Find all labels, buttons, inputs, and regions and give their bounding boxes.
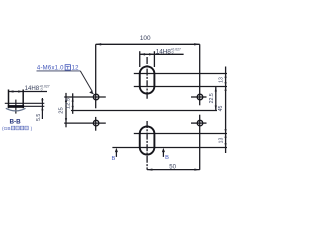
svg-text:25: 25 — [59, 107, 65, 113]
svg-text:13: 13 — [218, 138, 224, 144]
svg-text:B: B — [165, 155, 169, 161]
svg-text:0: 0 — [172, 50, 174, 54]
svg-text:100: 100 — [140, 35, 151, 42]
svg-text:45: 45 — [218, 106, 224, 112]
svg-text:5.5: 5.5 — [36, 114, 42, 121]
svg-text:(GB: (GB — [2, 126, 11, 132]
svg-text:12.5: 12.5 — [66, 98, 72, 109]
svg-text:B: B — [112, 156, 116, 162]
svg-text:14H8: 14H8 — [25, 85, 40, 92]
svg-text:13: 13 — [218, 77, 224, 83]
svg-text:0: 0 — [41, 88, 43, 92]
svg-text:22.5: 22.5 — [209, 93, 215, 103]
svg-text:50: 50 — [169, 165, 176, 171]
svg-text:14H8: 14H8 — [156, 49, 172, 56]
svg-text:B-B: B-B — [9, 118, 21, 125]
svg-text:): ) — [31, 126, 33, 132]
